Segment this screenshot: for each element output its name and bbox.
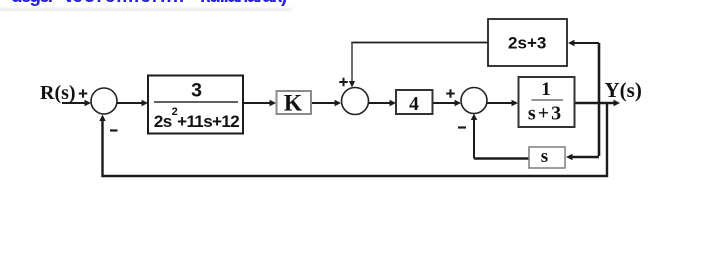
svg-text:2s+3: 2s+3 xyxy=(508,34,546,53)
svg-text:4: 4 xyxy=(409,94,419,115)
svg-text:s+3: s+3 xyxy=(528,103,563,125)
svg-text:K: K xyxy=(284,91,303,117)
svg-text:1: 1 xyxy=(541,79,551,100)
svg-text:3: 3 xyxy=(191,80,202,102)
svg-text:R(s): R(s) xyxy=(40,82,76,104)
svg-text:s: s xyxy=(541,146,548,167)
svg-text:Y(s): Y(s) xyxy=(605,78,642,102)
